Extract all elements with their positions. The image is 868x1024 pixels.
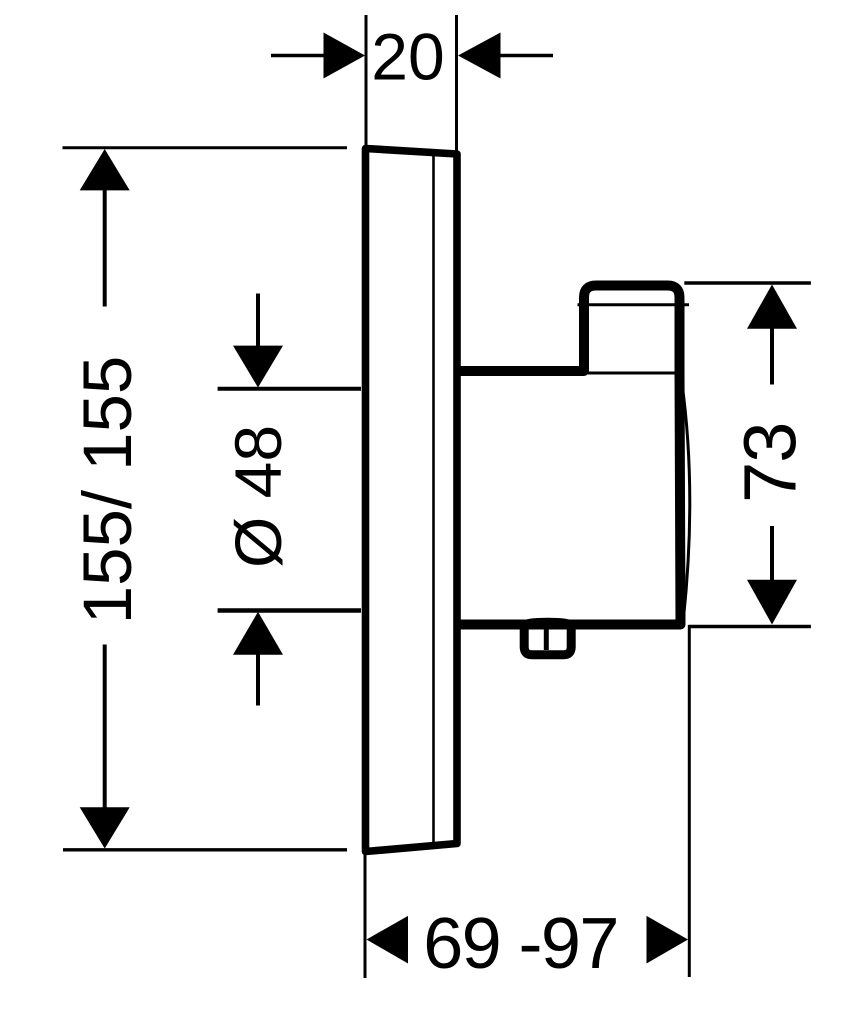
dim 20: right leader line: [500, 54, 553, 58]
dim 20: left arrowhead: [324, 33, 366, 79]
dim 20: left extension line: [365, 15, 368, 149]
plate face line: [432, 154, 435, 844]
valve body outline: [459, 286, 681, 625]
dim 155/155: upper stem: [103, 189, 107, 307]
dim 48: lower arrowhead: [233, 612, 283, 655]
dim 69-97: left arrowhead: [367, 916, 409, 964]
stop ring clip: [524, 622, 571, 654]
cartridge bulge contour: [682, 380, 690, 618]
dim 69-97: right extension line: [688, 625, 691, 977]
dim 48: lower stem: [256, 654, 260, 706]
dim 155/155: bottom arrowhead: [80, 807, 130, 848]
dim 48: upper stem: [256, 294, 260, 348]
dim 155/155: top arrowhead: [80, 149, 130, 190]
dim 69-97: left extension line: [364, 854, 367, 978]
svg-text:20: 20: [371, 20, 444, 94]
dim 69-97: right arrowhead: [647, 916, 689, 964]
dim 73: bottom extension line: [689, 625, 811, 628]
dim 48: upper arrowhead: [233, 346, 283, 388]
svg-text:Ø 48: Ø 48: [221, 425, 295, 568]
dim 73: upper stem: [770, 328, 774, 385]
dim 48: upper extension line: [218, 387, 361, 391]
dim 20: right arrowhead: [458, 33, 501, 79]
escutcheon plate outline: [366, 149, 458, 852]
dim 155/155: lower stem: [103, 645, 107, 809]
dim 73: upper arrowhead: [747, 285, 797, 329]
dim 73: lower arrowhead: [747, 580, 797, 625]
dim 155/155: bottom extension line: [63, 848, 347, 851]
dim 73: top extension line: [684, 281, 811, 284]
cap base line: [588, 372, 678, 375]
dim 48: lower extension line: [218, 608, 361, 613]
svg-text:155/ 155: 155/ 155: [69, 356, 146, 625]
svg-text:73: 73: [729, 423, 812, 503]
dim 73: lower stem: [770, 526, 774, 581]
cap seam line: [578, 303, 690, 306]
dim 20: left leader line: [271, 54, 325, 58]
dim 155/155: top extension line: [63, 146, 348, 149]
clip divider: [544, 624, 549, 650]
svg-text:69 -97: 69 -97: [423, 904, 618, 984]
dim 20: right extension line: [455, 15, 458, 154]
